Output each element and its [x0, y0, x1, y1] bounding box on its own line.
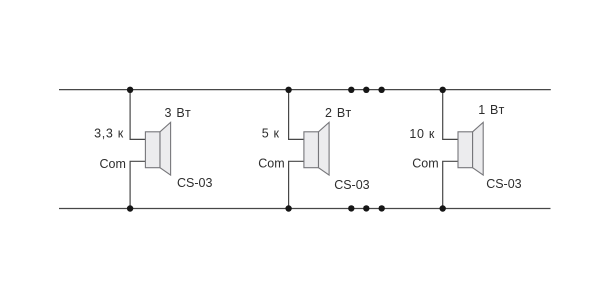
junction LS1 bottom — [127, 205, 133, 211]
svg-text:10 к: 10 к — [409, 127, 435, 141]
svg-text:3,3 к: 3,3 к — [94, 126, 124, 140]
bottom bus wire (common) — [59, 208, 551, 210]
svg-text:Com: Com — [412, 157, 438, 171]
wire LS1 common drop — [130, 161, 145, 208]
top bus wire (+) — [59, 89, 551, 91]
junction LS1 top — [127, 87, 133, 93]
speaker LS1 cone — [160, 122, 171, 175]
svg-text:CS-03: CS-03 — [177, 176, 212, 190]
speaker LS2 body — [304, 132, 319, 168]
ellipsis dots bottom bus — [348, 205, 385, 211]
svg-text:CS-03: CS-03 — [486, 177, 521, 191]
ellipsis dots top bus — [348, 87, 385, 93]
speaker LS3 cone — [473, 122, 484, 175]
junction LS3 bottom — [440, 205, 446, 211]
svg-text:1 Вт: 1 Вт — [478, 103, 505, 117]
junction LS2 top — [285, 87, 291, 93]
svg-text:3 Вт: 3 Вт — [165, 106, 192, 120]
svg-text:Com: Com — [99, 157, 125, 171]
wire LS3 top drop — [443, 90, 458, 140]
wire LS2 common drop — [289, 161, 304, 208]
junction LS3 top — [440, 87, 446, 93]
svg-text:5 к: 5 к — [262, 127, 280, 141]
svg-text:Com: Com — [258, 157, 284, 171]
svg-text:2 Вт: 2 Вт — [325, 106, 352, 120]
speaker LS2 cone — [319, 122, 330, 175]
junction LS2 bottom — [285, 205, 291, 211]
svg-text:CS-03: CS-03 — [334, 178, 369, 192]
wire LS3 common drop — [443, 161, 458, 208]
wire LS2 top drop — [289, 90, 304, 140]
speaker LS3 body — [458, 132, 473, 168]
wire LS1 top drop — [130, 90, 145, 140]
speaker LS1 body — [145, 132, 160, 168]
